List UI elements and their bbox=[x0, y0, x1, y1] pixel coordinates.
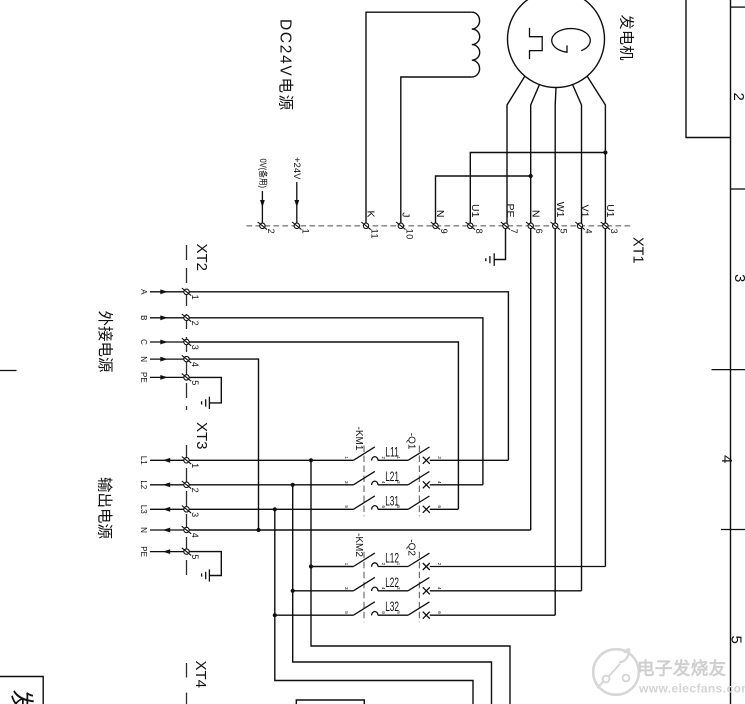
junction dot N bus bbox=[256, 528, 260, 532]
svg-text:-KM1: -KM1 bbox=[353, 427, 364, 451]
zone tick top right bbox=[731, 6, 745, 8]
svg-text:3: 3 bbox=[343, 481, 349, 484]
wire A into XT2-1 bbox=[150, 291, 187, 293]
wire PE into XT2-5 bbox=[150, 376, 187, 378]
terminal XT1-6 bbox=[526, 222, 535, 230]
wire between KM1 and Q1 pole 1 bbox=[378, 459, 408, 461]
contactor KM2 dashed link bbox=[363, 552, 365, 623]
svg-text:输出电源: 输出电源 bbox=[96, 477, 114, 539]
wire N out of XT3-4 bbox=[150, 529, 187, 531]
generator pulse symbol bbox=[530, 28, 543, 59]
svg-text:XT2: XT2 bbox=[193, 244, 210, 272]
contactor KM2 pole 3 bbox=[353, 602, 378, 616]
zone tick 4/5 bbox=[721, 529, 745, 531]
terminal XT1-8 bbox=[466, 222, 475, 230]
breaker Q1 pole 1 bbox=[408, 447, 430, 464]
svg-text:2: 2 bbox=[436, 456, 442, 459]
wire L3: XT3-3 to KM1 pole3 bbox=[187, 508, 354, 510]
zone tick 3/4 (center mark) bbox=[712, 369, 745, 371]
wire between KM1 and Q1 pole 3 bbox=[378, 508, 408, 510]
wire C: XT2-3 to Q1 pole3 output bbox=[187, 342, 459, 509]
terminal XT1-3 bbox=[601, 222, 610, 230]
svg-text:U1: U1 bbox=[604, 204, 616, 218]
junction dot U1 bbox=[603, 150, 607, 154]
wire +24V drop to XT1-1 bbox=[296, 182, 298, 226]
svg-text:3: 3 bbox=[343, 587, 349, 590]
breaker Q1 pole 2 bbox=[408, 472, 430, 489]
svg-text:5: 5 bbox=[395, 505, 401, 508]
svg-text:1: 1 bbox=[343, 563, 349, 566]
wire coil bottom to XT1-10 (J) bbox=[401, 77, 472, 226]
inductor coil L1 bbox=[472, 12, 480, 77]
svg-text:6: 6 bbox=[436, 611, 442, 614]
contactor KM1 dashed link bbox=[363, 446, 365, 517]
svg-text:4: 4 bbox=[436, 481, 442, 484]
terminal XT1-11 bbox=[361, 222, 370, 230]
zone tick 2/3 bbox=[731, 188, 745, 190]
breaker Q2 pole 1 bbox=[408, 553, 430, 570]
wire drop1: L1 branch to KM2 pole1 and bottom bbox=[311, 460, 510, 704]
wire Q1 pole 3 output bbox=[430, 508, 459, 510]
svg-text:N: N bbox=[139, 356, 148, 362]
svg-text:-Q1: -Q1 bbox=[406, 433, 417, 450]
wire Q1 pole 2 output bbox=[430, 484, 483, 486]
svg-text:W1: W1 bbox=[554, 202, 566, 218]
svg-text:2: 2 bbox=[190, 321, 200, 327]
terminal XT1-2 bbox=[258, 222, 267, 230]
svg-text:2: 2 bbox=[730, 93, 745, 101]
svg-text:4: 4 bbox=[190, 362, 200, 368]
svg-text:XT4: XT4 bbox=[192, 661, 209, 689]
svg-text:6: 6 bbox=[534, 229, 544, 235]
svg-text:XT3: XT3 bbox=[193, 422, 210, 450]
wire generator lead V1 bbox=[573, 85, 582, 591]
svg-text:5: 5 bbox=[343, 611, 349, 614]
svg-text:L3: L3 bbox=[139, 505, 148, 514]
junction dot bbox=[309, 458, 313, 462]
terminal XT3-1 bbox=[182, 457, 191, 465]
wire KM2 pole2 input bbox=[293, 590, 354, 592]
wire 0V drop to XT1-2 bbox=[261, 191, 263, 226]
wire between KM2 and Q2 pole 2 bbox=[378, 590, 408, 592]
contactor KM1 pole 1 bbox=[353, 447, 378, 461]
svg-text:DC24V电源: DC24V电源 bbox=[277, 19, 295, 112]
wire Q1 pole 1 output bbox=[430, 459, 509, 461]
wire A: XT2-1 to Q1 pole1 output bbox=[187, 292, 509, 461]
wire B into XT2-2 bbox=[150, 317, 187, 319]
contactor KM1 pole 2 bbox=[353, 471, 378, 485]
svg-text:1: 1 bbox=[190, 295, 200, 301]
svg-text:2: 2 bbox=[266, 229, 276, 235]
wire KM2 pole1 input bbox=[311, 566, 353, 568]
svg-text:10: 10 bbox=[404, 229, 414, 240]
svg-text:PE: PE bbox=[139, 546, 148, 557]
svg-text:L2: L2 bbox=[139, 480, 148, 489]
breaker Q1 dashed link bbox=[418, 446, 420, 517]
XT1 dashed strip line bbox=[247, 225, 634, 227]
svg-text:A: A bbox=[139, 289, 148, 295]
svg-text:+24V: +24V bbox=[291, 157, 302, 180]
svg-text:3: 3 bbox=[731, 274, 745, 282]
terminal XT3-3 bbox=[182, 506, 191, 514]
wire generator lead U1 bbox=[587, 76, 605, 566]
svg-text:6: 6 bbox=[436, 505, 442, 508]
svg-text:5: 5 bbox=[559, 229, 569, 235]
title block box bottom-left bbox=[0, 677, 43, 704]
svg-text:1: 1 bbox=[395, 563, 401, 566]
svg-text:8: 8 bbox=[474, 229, 484, 235]
contactor KM1 pole 3 bbox=[353, 496, 378, 510]
wire Q2 pole 2 output bbox=[430, 590, 582, 592]
svg-text:5: 5 bbox=[395, 611, 401, 614]
svg-text:N: N bbox=[434, 210, 446, 218]
left border zone tick bbox=[0, 370, 17, 372]
wire XT1-8 (U1) up to generator U1 bbox=[470, 153, 605, 226]
wire generator lead N bbox=[531, 85, 540, 530]
svg-text:11: 11 bbox=[370, 229, 380, 240]
terminal XT2-4 bbox=[182, 355, 191, 363]
wire PE: XT3-5 to ground bbox=[187, 552, 222, 576]
contactor KM2 pole 2 bbox=[353, 577, 378, 591]
svg-text:3: 3 bbox=[395, 481, 401, 484]
wire N: XT2-4 down to N bus bbox=[187, 359, 259, 530]
ground symbol at XT3 PE bbox=[202, 569, 210, 581]
wire between KM2 and Q2 pole 3 bbox=[378, 614, 408, 616]
terminal XT1-10 bbox=[396, 222, 405, 230]
svg-text:U1: U1 bbox=[469, 204, 481, 218]
terminal XT2-3 bbox=[182, 338, 191, 346]
XT2 dashed strip line bbox=[186, 245, 188, 410]
svg-text:2: 2 bbox=[190, 488, 200, 494]
junction dot bbox=[309, 564, 313, 568]
XT4 dashed strip line bbox=[186, 663, 188, 704]
svg-text:N: N bbox=[529, 210, 541, 218]
terminal XT1-9 bbox=[431, 222, 440, 230]
wire PE out of XT3-5 bbox=[150, 551, 187, 553]
svg-text:1: 1 bbox=[343, 456, 349, 459]
breaker Q1 pole 3 bbox=[408, 496, 430, 513]
wire Q2 pole 1 output bbox=[430, 566, 606, 568]
ground symbol at XT1 PE bbox=[486, 253, 494, 266]
svg-text:K: K bbox=[365, 210, 377, 217]
breaker Q2 dashed link bbox=[418, 552, 420, 623]
wire KM2 pole3 input bbox=[275, 614, 354, 616]
contactor KM2 pole 1 bbox=[353, 553, 378, 567]
wire L2 out of XT3-2 bbox=[150, 484, 187, 486]
svg-text:外接电源: 外接电源 bbox=[96, 311, 114, 373]
generator G1 circle bbox=[508, 0, 605, 88]
svg-text:1: 1 bbox=[395, 456, 401, 459]
svg-text:4: 4 bbox=[718, 455, 735, 463]
svg-text:1: 1 bbox=[190, 463, 200, 469]
component box at bottom edge bbox=[296, 700, 364, 704]
junction dot N bbox=[529, 174, 533, 178]
svg-text:4: 4 bbox=[584, 229, 594, 235]
wire drop2: L2 branch to KM2 pole2 and bottom bbox=[293, 485, 492, 704]
terminal XT1-1 bbox=[292, 222, 301, 230]
wire XT1-9 (N) up to generator N bbox=[436, 176, 531, 226]
terminal XT3-5 bbox=[182, 548, 191, 556]
svg-text:5: 5 bbox=[343, 505, 349, 508]
wire L2: XT3-2 to KM1 pole2 bbox=[187, 484, 354, 486]
svg-text:-Q2: -Q2 bbox=[406, 539, 417, 556]
svg-text:0V(备用): 0V(备用) bbox=[258, 159, 269, 189]
breaker Q2 pole 3 bbox=[408, 602, 430, 619]
svg-text:5: 5 bbox=[728, 636, 745, 644]
svg-text:4: 4 bbox=[190, 533, 200, 539]
watermark logo circle bbox=[593, 649, 639, 695]
wire drop3: L3 branch to KM2 pole3 and bottom bbox=[275, 509, 473, 704]
svg-text:发电机: 发电机 bbox=[618, 15, 635, 62]
svg-text:XT1: XT1 bbox=[630, 237, 646, 264]
svg-text:J: J bbox=[399, 212, 411, 217]
svg-text:7: 7 bbox=[509, 229, 519, 235]
frame top-right revision box bbox=[686, 0, 731, 138]
junction dot bbox=[273, 613, 277, 617]
svg-text:B: B bbox=[139, 315, 148, 320]
XT3 dashed strip line bbox=[186, 445, 188, 578]
terminal XT1-5 bbox=[551, 222, 560, 230]
svg-text:5: 5 bbox=[190, 554, 200, 560]
terminal XT1-4 bbox=[575, 222, 584, 230]
terminal XT3-2 bbox=[182, 481, 191, 489]
svg-text:3: 3 bbox=[190, 512, 200, 518]
svg-text:3: 3 bbox=[190, 345, 200, 351]
svg-text:1: 1 bbox=[300, 229, 310, 235]
svg-text:L1: L1 bbox=[139, 456, 148, 465]
svg-text:3: 3 bbox=[609, 229, 619, 235]
wire XT1-7 (PE) to ground bbox=[494, 226, 505, 260]
breaker Q2 pole 2 bbox=[408, 578, 430, 595]
wire generator lead PE bbox=[507, 76, 525, 226]
wire generator lead W1 bbox=[554, 88, 557, 616]
wire L3 out of XT3-3 bbox=[150, 508, 187, 510]
svg-text:PE: PE bbox=[504, 203, 516, 217]
terminal XT2-5 bbox=[182, 374, 191, 382]
svg-text:V1: V1 bbox=[579, 205, 591, 218]
wire N bus: XT3-4 to generator N lead bbox=[187, 529, 531, 531]
svg-text:5: 5 bbox=[190, 380, 200, 386]
wire L1: XT3-1 to KM1 pole1 bbox=[187, 459, 354, 461]
svg-text:2: 2 bbox=[436, 563, 442, 566]
svg-text:C: C bbox=[139, 339, 148, 345]
svg-text:电子发烧友: 电子发烧友 bbox=[637, 659, 727, 679]
junction dot bbox=[291, 589, 295, 593]
wire C into XT2-3 bbox=[150, 341, 187, 343]
wire PE: XT2-5 to ground bbox=[187, 377, 222, 403]
terminal XT2-2 bbox=[182, 314, 191, 322]
wire between KM1 and Q1 pole 2 bbox=[378, 484, 408, 486]
svg-text:3: 3 bbox=[395, 587, 401, 590]
svg-text:www.elecfans.com: www.elecfans.com bbox=[638, 682, 745, 696]
wire between KM2 and Q2 pole 1 bbox=[378, 566, 408, 568]
terminal XT1-7 bbox=[501, 222, 510, 230]
drawing frame right border line bbox=[730, 0, 732, 704]
ground symbol at XT2 PE bbox=[202, 397, 210, 409]
terminal XT2-1 bbox=[182, 288, 191, 296]
wire N into XT2-4 bbox=[150, 358, 187, 360]
junction dot bbox=[273, 507, 277, 511]
wire XT1-11 (K) to coil top bbox=[366, 12, 472, 226]
wire B: XT2-2 to Q1 pole2 output bbox=[187, 318, 483, 485]
junction dot bbox=[291, 483, 295, 487]
generator letter G (rotated) bbox=[552, 29, 591, 53]
svg-text:N: N bbox=[139, 527, 148, 533]
wire Q2 pole 3 output bbox=[430, 614, 555, 616]
wire L1 out of XT3-1 bbox=[150, 459, 187, 461]
terminal XT3-4 bbox=[182, 526, 191, 534]
svg-text:4: 4 bbox=[436, 587, 442, 590]
svg-text:PE: PE bbox=[139, 372, 148, 383]
svg-text:-KM2: -KM2 bbox=[353, 533, 364, 557]
svg-text:发: 发 bbox=[8, 690, 35, 704]
svg-text:9: 9 bbox=[439, 229, 449, 235]
